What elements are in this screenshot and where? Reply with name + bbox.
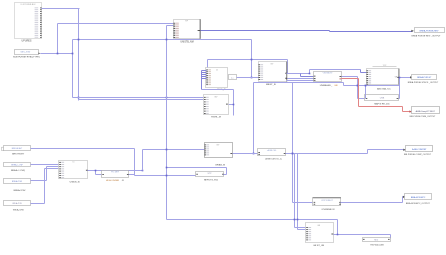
wire U15 out net — [286, 150, 405, 154]
port OUT5 BB-A-MODE — [403, 194, 432, 200]
svg-text:GR BT_UB: GR BT_UB — [313, 245, 324, 247]
wire branch x300.3 to U8 pin1 — [301, 74, 314, 77]
svg-text:BRK·HIGHT: BRK·HIGHT — [12, 153, 25, 155]
wire U5 out y77.2 — [237, 77, 259, 79]
junction node E — [166, 39, 168, 41]
junction node V — [337, 234, 339, 236]
svg-text:BREA-/1/W/: BREA-/1/W/ — [12, 180, 23, 183]
svg-text:MAP B RE_001: MAP B RE_001 — [374, 102, 390, 105]
wire drop into U10 left port — [365, 95, 367, 99]
junction node P3 — [166, 167, 168, 169]
block U8 UNBIASED — [314, 72, 342, 82]
wire x365.7 down to U10 — [365, 86, 367, 99]
wire U13 out y153.5 — [233, 153, 259, 155]
wire x253.6 down — [253, 83, 255, 154]
junction node X2 — [142, 170, 144, 172]
block U13 GRIAN — [205, 143, 233, 158]
pin out U3 — [198, 29, 201, 32]
pin out U6 — [226, 103, 228, 106]
wire long bus y82.4 — [254, 83, 400, 86]
wire y149.2 to U13 — [143, 150, 205, 171]
junction node L — [357, 85, 359, 87]
wire IN3 to U11 pin3 — [31, 167, 59, 181]
wire U3 output net — [201, 31, 413, 32]
junction node X1 — [95, 170, 97, 172]
svg-text:WB.A-/1/W: WB.A-/1/W — [13, 208, 25, 211]
pin out U7 — [285, 72, 287, 75]
svg-text:A·BB·CM·0·D_/a: A·BB·CM·0·D_/a — [265, 158, 282, 161]
junction node M — [399, 77, 401, 79]
junction node D — [78, 97, 80, 99]
wire U8 out1 to U10 port — [342, 77, 366, 99]
block U15 A-BB-CM — [258, 149, 286, 156]
wire y59.6 — [208, 59, 288, 61]
svg-text:UPURES: UPURES — [22, 39, 32, 42]
block U3 UNISTB — [174, 19, 201, 39]
wire vertical x78.7 — [78, 9, 80, 101]
svg-text:BREA+/-1 NF: BREA+/-1 NF — [11, 164, 23, 167]
svg-text:BBI·PURGE·TIME_OUTPUT: BBI·PURGE·TIME_OUTPUT — [410, 116, 437, 118]
junction node A — [57, 53, 59, 55]
svg-text:GBI: GBI — [334, 85, 338, 87]
wire x207.2 into U4 top — [207, 60, 209, 68]
junction node I — [309, 73, 311, 75]
svg-text:UNISTB_NM: UNISTB_NM — [180, 41, 193, 43]
wire IN4 to U11 pin4 — [31, 169, 59, 204]
svg-text:BREA-PURGE-REV: BREA-PURGE-REV — [420, 30, 439, 33]
block U10 USB map — [365, 95, 399, 101]
svg-text:HIGHL_M: HIGHL_M — [211, 117, 221, 119]
wire red U8 out2 — [342, 79, 411, 112]
svg-text:TM71044_BB: TM71044_BB — [370, 245, 384, 247]
junction node P — [166, 149, 168, 151]
svg-text:A-BB-Camp/CT BIGT: A-BB-Camp/CT BIGT — [416, 110, 436, 113]
svg-text:▪HC·MEI▪: ▪HC·MEI▪ — [111, 171, 119, 173]
svg-text:UNBIASED_: UNBIASED_ — [320, 84, 333, 87]
junction node P2 — [166, 175, 168, 177]
pin out U11 — [86, 169, 88, 172]
junction node H — [233, 104, 235, 106]
block U14 STP — [196, 172, 224, 177]
wire y69.9 to U9 — [310, 69, 361, 71]
junction node T — [297, 219, 299, 221]
svg-text:WB.A-/1/W: WB.A-/1/W — [12, 202, 22, 205]
block U12 HIGH-CHMEI — [102, 171, 129, 178]
svg-text:IC-STICKER-BLK: IC-STICKER-BLK — [21, 4, 37, 6]
pins of U1 — [35, 7, 42, 37]
port IN3 — [4, 179, 31, 184]
block U2 DATA-L-STATE — [15, 50, 39, 55]
junction node W — [166, 97, 168, 99]
svg-text:AND BIA_/CC: AND BIA_/CC — [377, 87, 391, 90]
pins of U9 — [366, 70, 371, 84]
wire y219.6 long — [167, 220, 391, 239]
wire y175.6 to U14 left port — [135, 175, 196, 177]
junction node B — [72, 53, 74, 55]
port IN4 — [4, 201, 31, 206]
wire x294.6 down to U17 pin1 — [295, 154, 307, 228]
port OUT2 BREA-PURGE-STECK — [410, 75, 437, 80]
svg-text:BBI·PURGE·COMP_OUTPUT: BBI·PURGE·COMP_OUTPUT — [404, 154, 432, 156]
svg-text:BAT-L-STAT: BAT-L-STAT — [21, 51, 32, 54]
wire into U3 pin2 — [167, 25, 174, 27]
junction node K — [253, 153, 255, 155]
junction node L2 — [365, 85, 367, 87]
block U9 AND — [367, 65, 400, 85]
svg-text:NEPUYG_R11: NEPUYG_R11 — [204, 180, 219, 182]
block U11 USB06 — [59, 161, 88, 179]
wire U14 out — [167, 168, 227, 175]
block U4 SELE — [206, 68, 228, 88]
svg-text:BREA-/1/W/: BREA-/1/W/ — [14, 189, 26, 192]
pins of U17 — [306, 227, 311, 240]
svg-text:MBIST_ID: MBIST_ID — [266, 84, 277, 86]
wire pin1 U1 to node V78 — [42, 8, 80, 10]
wire U7 out2 y80.5 to U8 pin3 — [287, 80, 314, 82]
svg-text:USB06_ID: USB06_ID — [70, 182, 81, 184]
pins of U11 — [59, 162, 64, 178]
svg-text:BREA·PURGE·REV _OUTPUT: BREA·PURGE·REV _OUTPUT — [412, 35, 442, 38]
pins of U13 — [204, 144, 209, 155]
wire x399.8 down to U10 — [399, 78, 401, 99]
wire U10 right port — [398, 98, 400, 100]
wire U2 out to x72.4 — [41, 53, 73, 55]
wire U9 out — [400, 77, 412, 79]
wire y39.7 long — [73, 39, 252, 41]
pins of U7 — [258, 64, 263, 80]
svg-text:STP: STP — [208, 173, 213, 175]
wire y23.7 to U3 pin1 — [58, 23, 174, 25]
pins out U8 — [340, 76, 342, 79]
wire x292.3 down to U16 — [293, 83, 313, 203]
wire U17 out — [334, 234, 338, 236]
junction node G — [251, 77, 253, 79]
svg-text:BREA+/-1 NF): BREA+/-1 NF) — [11, 169, 25, 172]
wire step into U9 pin2 — [361, 70, 367, 73]
pin out U17 — [331, 233, 333, 236]
pins of U4 — [206, 69, 211, 85]
pins of U6 — [204, 97, 209, 114]
svg-text:COP JOB.07: COP JOB.07 — [321, 200, 333, 202]
pin out U9 OR — [395, 76, 399, 78]
junction node Q — [292, 153, 294, 155]
block U16 COP — [313, 198, 342, 206]
svg-text:/VSWEME·W: /VSWEME·W — [321, 209, 335, 211]
junction node S — [294, 219, 296, 221]
port OUT4 BBI-PURGE-COMP — [403, 146, 432, 152]
pin out2 U7 — [285, 77, 287, 80]
wire x287.9 down — [287, 60, 289, 74]
wire x297.3 down to U17 pin2 — [298, 154, 307, 230]
pin out U2 — [38, 53, 40, 55]
wire horizontal y99.6 to U6 pin2 — [79, 99, 205, 101]
wire U11 out — [88, 171, 143, 175]
wire IN1 long y148.9 — [31, 149, 135, 176]
svg-text:SUB·PURGE·RYBL(TYPE): SUB·PURGE·RYBL(TYPE) — [13, 57, 40, 59]
wire x309.4 up — [309, 70, 311, 74]
port OUT3 BREA-PURGE-TIME — [409, 107, 439, 114]
wire y97.3 to U6 pin1 — [73, 97, 205, 99]
svg-text:A-BB-COMP/BT: A-BB-COMP/BT — [412, 148, 427, 151]
pins of U3 — [173, 23, 178, 38]
wire y89.8 right — [202, 89, 234, 91]
wire U7 out2 to U8 pin2 — [287, 78, 314, 80]
svg-text:GRIAN_M: GRIAN_M — [215, 163, 225, 166]
wire branch up x57.2 — [57, 24, 59, 54]
svg-text:▪UN·BIA·ST: ▪UN·BIA·ST — [322, 72, 333, 75]
wire IN2 to U11 pin2 — [31, 164, 59, 166]
port IN1 BRK HIGHT — [2, 146, 31, 151]
svg-text:BREA·PURGE·STECK _OUTPUT: BREA·PURGE·STECK _OUTPUT — [408, 81, 439, 84]
svg-text:BREA-PUR-ST: BREA-PUR-ST — [417, 76, 432, 79]
svg-text:BRK-HIGHT: BRK-HIGHT — [12, 148, 23, 150]
pin out U13 — [230, 152, 232, 155]
wire vertical x72.4 — [72, 40, 74, 98]
block U17 GR BT — [306, 223, 334, 243]
label UNBIASED — [320, 84, 338, 87]
block U6 HIGHL MV — [204, 95, 229, 115]
svg-text:BB/A·MODE/PC_OUTPUT: BB/A·MODE/PC_OUTPUT — [406, 202, 431, 205]
wire U7 out y73.2 — [287, 73, 310, 75]
port OUT1 BREA-PURGE-REV — [411, 28, 444, 33]
junction node C — [78, 39, 80, 41]
junction node J — [292, 153, 294, 155]
svg-text:MCI: MCI — [374, 240, 378, 242]
wire U6 out join — [228, 104, 234, 106]
svg-text:BB/A-MODE/PC: BB/A-MODE/PC — [411, 196, 426, 199]
block U1 IC-STICK chart — [15, 3, 42, 39]
svg-text:▪A·BB·CM▪: ▪A·BB·CM▪ — [267, 149, 277, 152]
block U5 L gain — [229, 75, 237, 80]
port IN2 — [4, 163, 31, 167]
pins of U8 — [314, 76, 316, 81]
svg-text:HIGH·CHMEI: HIGH·CHMEI — [106, 180, 120, 182]
junction node F — [251, 59, 253, 61]
wire x251.5 — [251, 40, 253, 78]
label HIGH-CHMEI-R — [106, 180, 124, 182]
wire x233.2 down — [233, 90, 235, 116]
wire U4 comb vertical x201.3 — [202, 71, 207, 90]
block U18 MCI — [363, 238, 391, 242]
wire big vertical x166.8 — [166, 26, 168, 220]
block U7 NV — [259, 62, 287, 82]
svg-text:USB: USB — [380, 97, 385, 99]
wire U16 out — [341, 197, 405, 203]
